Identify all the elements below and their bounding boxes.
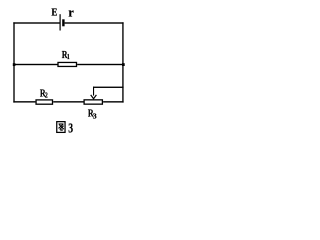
svg-text:r: r (68, 5, 74, 19)
wire: left rail (13, 22, 14, 102)
node: junction dot left (middle wire / left rail) (13, 63, 16, 66)
wire: rheostat tap horizontal from right rail (93, 87, 124, 88)
wire: bottom-right segment from R3 to right rail (103, 101, 124, 102)
svg-text:1: 1 (67, 53, 70, 61)
wire: rheostat tap vertical shaft (93, 87, 94, 96)
battery E short plate (negative) (62, 19, 64, 26)
svg-text:3: 3 (93, 111, 97, 120)
background (0, 0, 135, 141)
wire: bottom segment between R2 and R3 (53, 101, 83, 102)
rheostat arrow head on R3 (91, 95, 97, 99)
battery E long plate (positive) (60, 14, 61, 30)
wire: middle wire right of R1 (77, 64, 123, 65)
wire: bottom-left segment from left rail to R2 (13, 101, 35, 102)
svg-text:E: E (51, 7, 57, 19)
svg-text:2: 2 (45, 92, 48, 100)
wire: right rail (122, 22, 123, 102)
node: junction dot right (middle wire / right rail) (122, 63, 125, 66)
wire: middle wire left of R1 (13, 64, 57, 65)
rheostat R3 box (84, 100, 102, 104)
wire: top-left segment from left rail to battery (13, 22, 59, 23)
resistor R2 box (36, 100, 52, 104)
wire: top-right segment from battery to right rail (65, 22, 124, 23)
resistor R1 box (58, 62, 77, 66)
svg-text:3: 3 (68, 120, 73, 136)
caption 图 glyph (drawn) (57, 122, 65, 133)
